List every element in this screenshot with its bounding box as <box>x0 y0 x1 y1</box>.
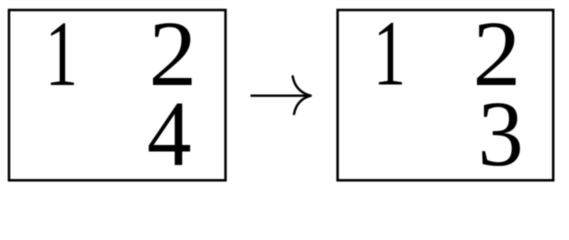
svg-text:3: 3 <box>478 83 524 186</box>
left matrix box <box>9 10 226 180</box>
right matrix box <box>338 10 554 180</box>
svg-text:4: 4 <box>147 82 192 185</box>
arrow head <box>293 76 311 114</box>
svg-text:1: 1 <box>45 3 78 106</box>
svg-text:1: 1 <box>373 2 406 105</box>
arrow shaft <box>251 94 309 96</box>
